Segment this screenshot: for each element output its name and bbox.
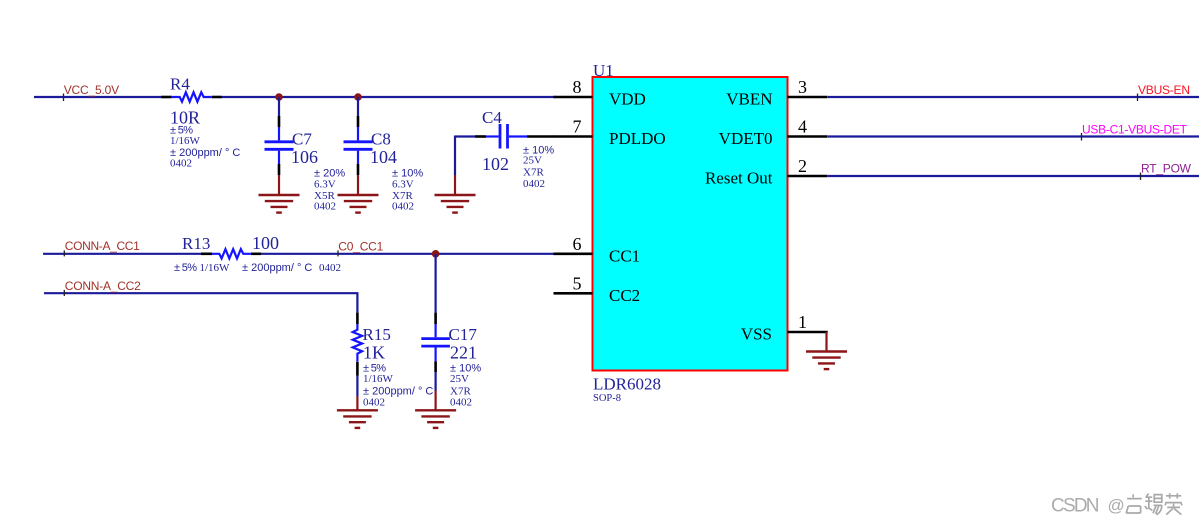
svg-text:X7R: X7R (450, 385, 471, 397)
svg-text:± 5%: ± 5% (174, 262, 197, 274)
capacitor C4 (455, 108, 554, 190)
pin 4 stub (788, 135, 828, 138)
svg-text:3: 3 (798, 77, 807, 97)
svg-text:5: 5 (573, 273, 582, 293)
svg-text:VDD: VDD (609, 90, 646, 109)
svg-text:SOP-8: SOP-8 (593, 393, 621, 404)
pin 3 stub (788, 96, 828, 99)
svg-text:6.3V: 6.3V (392, 179, 414, 191)
svg-text:100: 100 (252, 233, 279, 253)
watermark CJK xi (1145, 494, 1162, 515)
ground R15 (337, 410, 378, 428)
svg-text:VCC_5.0V: VCC_5.0V (64, 83, 119, 97)
wire R13 to pin 6 (261, 253, 554, 255)
svg-text:1/16W: 1/16W (200, 262, 231, 274)
svg-text:25V: 25V (523, 155, 542, 167)
svg-text:8: 8 (573, 77, 582, 97)
tick USB-C1-VBUS-DET (1081, 133, 1083, 141)
svg-text:C4: C4 (482, 108, 502, 127)
svg-text:6: 6 (573, 234, 582, 254)
svg-text:106: 106 (291, 147, 318, 167)
resistor R4 (161, 75, 240, 170)
tick CONN-A_CC1 (63, 250, 65, 256)
svg-text:C0_CC1: C0_CC1 (338, 240, 383, 254)
pin 8 stub (554, 96, 593, 99)
ground C7 (259, 195, 300, 213)
pin 1 stub (788, 331, 828, 334)
svg-text:1K: 1K (363, 343, 385, 363)
svg-text:C7: C7 (292, 129, 312, 148)
svg-text:R15: R15 (363, 325, 391, 344)
svg-text:0402: 0402 (450, 397, 472, 409)
svg-text:VSS: VSS (741, 325, 772, 344)
svg-text:104: 104 (370, 147, 397, 167)
wire VCC_5.0V rail (34, 96, 162, 98)
ground C8 (338, 195, 379, 213)
svg-text:0402: 0402 (314, 201, 336, 213)
svg-text:0402: 0402 (170, 158, 192, 170)
wire VSS to ground (825, 332, 827, 352)
ground C17 (415, 410, 456, 428)
svg-text:LDR6028: LDR6028 (593, 375, 661, 394)
pin 6 stub (554, 253, 593, 256)
svg-text:6.3V: 6.3V (314, 179, 336, 191)
svg-text:2: 2 (798, 156, 807, 176)
svg-text:4: 4 (798, 117, 807, 137)
svg-text:CC2: CC2 (609, 286, 640, 305)
wire RT_POW (828, 175, 1199, 177)
svg-text:C8: C8 (371, 129, 391, 148)
tick RT_POW (1140, 173, 1142, 181)
wire VBUS-EN (828, 96, 1199, 98)
capacitor C8 (344, 97, 424, 213)
capacitor C7 (265, 97, 346, 213)
wire USB-C1-VBUS-DET (828, 135, 1199, 137)
pin 7 stub (554, 135, 593, 138)
watermark CJK rong (1165, 493, 1182, 514)
tick VCC_5.0V (63, 94, 65, 102)
IC U1 body (593, 77, 788, 371)
watermark CJK lu (1126, 494, 1142, 513)
junction node C8 (354, 93, 362, 101)
svg-text:1/16W: 1/16W (170, 135, 201, 147)
svg-text:U1: U1 (593, 61, 614, 80)
svg-text:0402: 0402 (523, 178, 545, 190)
svg-text:0402: 0402 (363, 397, 385, 409)
svg-text:VBEN: VBEN (726, 90, 772, 109)
svg-text:± 200ppm/ ° C: ± 200ppm/ ° C (242, 262, 312, 274)
svg-text:RT_POW: RT_POW (1141, 162, 1192, 176)
svg-text:7: 7 (573, 117, 582, 137)
svg-text:USB-C1-VBUS-DET: USB-C1-VBUS-DET (1082, 122, 1188, 136)
svg-text:R4: R4 (170, 75, 190, 94)
svg-text:Reset Out: Reset Out (705, 169, 773, 188)
tick CONN-A_CC2 (63, 290, 65, 296)
svg-text:@: @ (1108, 496, 1125, 515)
svg-text:0402: 0402 (392, 201, 414, 213)
capacitor C17 (421, 254, 481, 410)
svg-text:0402: 0402 (319, 262, 341, 274)
tick C0_CC1 (337, 250, 339, 256)
svg-text:1: 1 (798, 312, 807, 332)
svg-text:C17: C17 (449, 325, 478, 344)
wire CONN-A_CC1 (43, 253, 202, 255)
svg-text:102: 102 (482, 154, 509, 174)
svg-text:± 200ppm/ ° C: ± 200ppm/ ° C (363, 385, 433, 397)
svg-text:R13: R13 (182, 234, 210, 253)
svg-text:VDET0: VDET0 (719, 129, 773, 148)
resistor R13 (174, 233, 341, 274)
resistor R15 (353, 313, 434, 411)
tick VBUS-EN (1137, 94, 1139, 102)
svg-text:1/16W: 1/16W (363, 373, 394, 385)
pin 5 stub (554, 292, 593, 295)
junction node C7 (275, 93, 283, 101)
svg-text:CSDN: CSDN (1051, 495, 1100, 516)
svg-text:CONN-A_CC1: CONN-A_CC1 (65, 239, 140, 253)
svg-text:CONN-A_CC2: CONN-A_CC2 (65, 279, 141, 293)
svg-text:VBUS-EN: VBUS-EN (1138, 83, 1190, 97)
svg-text:CC1: CC1 (609, 246, 640, 265)
svg-text:221: 221 (450, 343, 477, 363)
svg-text:PDLDO: PDLDO (609, 129, 666, 148)
ground VSS (806, 352, 847, 370)
ground C4 (435, 195, 476, 213)
wire C4 to ground (454, 136, 456, 176)
junction node C0_CC1 (432, 250, 440, 258)
wire CONN-A_CC2 (44, 293, 357, 312)
pin 2 stub (788, 175, 828, 178)
svg-text:25V: 25V (450, 373, 469, 385)
